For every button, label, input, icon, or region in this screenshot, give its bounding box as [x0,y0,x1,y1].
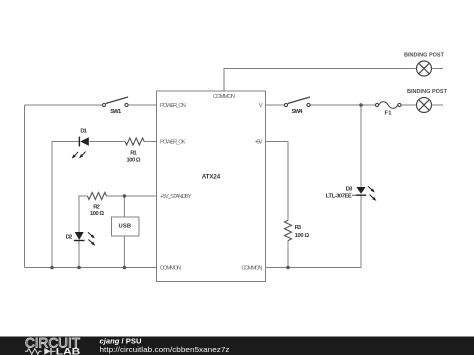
svg-text:100 Ω: 100 Ω [295,233,310,239]
svg-text:D1: D1 [80,128,87,134]
svg-text:COMMON: COMMON [241,266,262,272]
svg-text:+5V_STANDBY: +5V_STANDBY [160,194,192,200]
svg-text:BINDING POST: BINDING POST [407,89,448,95]
svg-text:D2: D2 [66,235,73,241]
svg-text:POWER_ON: POWER_ON [160,103,186,109]
svg-text:100 Ω: 100 Ω [127,158,141,164]
svg-text:R1: R1 [130,151,137,157]
svg-text:+5V: +5V [255,140,263,146]
svg-text:LAB: LAB [56,347,81,355]
svg-text:R2: R2 [93,205,100,211]
svg-text:D3: D3 [346,187,353,193]
svg-text:LTL-307EE: LTL-307EE [326,193,352,199]
svg-text:SW4: SW4 [292,109,304,115]
svg-text:100 Ω: 100 Ω [90,211,104,217]
svg-text:R3: R3 [295,225,302,231]
svg-text:http://circuitlab.com/cbben5xa: http://circuitlab.com/cbben5xanez7z [100,345,230,354]
svg-text:COMMON: COMMON [213,94,235,100]
svg-text:SW1: SW1 [110,109,122,115]
svg-text:USB: USB [119,224,132,230]
svg-text:POWER_OK: POWER_OK [160,140,186,146]
svg-text:BINDING POST: BINDING POST [404,53,445,59]
svg-text:ATX24: ATX24 [202,173,221,180]
svg-text:F1: F1 [385,111,393,117]
svg-text:V: V [259,103,263,109]
svg-text:COMMON: COMMON [160,266,181,272]
